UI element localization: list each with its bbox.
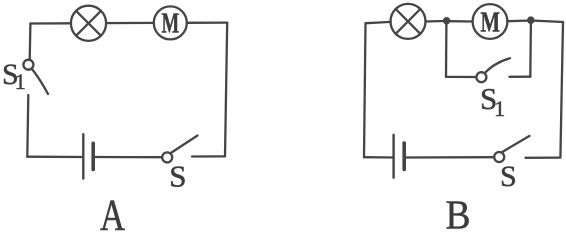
svg-text:A: A [100, 191, 125, 232]
wire B branch left vertical from J1 [445, 24, 448, 77]
wire B node J1 to motor [450, 20, 473, 23]
svg-text:B: B [446, 192, 471, 232]
wire A switch to battery [94, 156, 162, 158]
battery BT2 long plate [392, 135, 394, 178]
wire B branch horizontal right [510, 76, 531, 78]
lamp L1 (circle with X) [71, 6, 106, 41]
wire B top-left horizontal [366, 22, 391, 23]
node J1 junction dot [443, 17, 450, 24]
switch S (circuit B, open blade) [494, 136, 529, 162]
svg-text:M: M [162, 8, 180, 39]
wire B branch horizontal left [446, 76, 477, 78]
svg-text:1: 1 [494, 96, 505, 121]
wire B right vertical [560, 22, 563, 158]
wire A bottom-right segment [192, 155, 225, 157]
svg-text:1: 1 [15, 69, 26, 94]
wire B left vertical [364, 23, 366, 157]
wire B motor to node J2 [507, 19, 527, 22]
svg-text:M: M [481, 6, 501, 38]
svg-text:S: S [500, 160, 517, 193]
battery BT1 long plate [82, 134, 84, 178]
motor U1 circle [154, 6, 187, 39]
wire B lamp to node J1 [426, 20, 444, 23]
battery BT1 short plate [91, 143, 95, 169]
wire B node J2 to top-right corner [534, 21, 563, 22]
wire A battery to bottom-left corner [27, 156, 83, 159]
switch S (circuit A, open blade) [162, 136, 197, 163]
switch S1 (circuit A, open blade) [23, 60, 48, 94]
battery BT2 short plate [402, 143, 406, 169]
wire B branch right vertical to J2 [529, 24, 532, 77]
wire A left vertical lower [27, 95, 28, 157]
svg-text:S: S [169, 159, 186, 194]
switch S1 (circuit B, open blade) [476, 58, 510, 82]
wire A left vertical upper [29, 24, 32, 60]
lamp L2 (circle with X) [391, 4, 426, 39]
wire A motor to top-right corner [187, 21, 227, 23]
wire A between lamp and motor [106, 22, 154, 25]
motor U2 circle [473, 4, 508, 39]
node J2 junction dot [527, 16, 535, 24]
wire B bottom-left segment [364, 156, 394, 159]
wire B battery to switch [404, 156, 494, 159]
wire B switch to bottom-right corner [526, 156, 561, 158]
wire A top-left horizontal [30, 22, 71, 25]
wire A right vertical [225, 23, 227, 157]
